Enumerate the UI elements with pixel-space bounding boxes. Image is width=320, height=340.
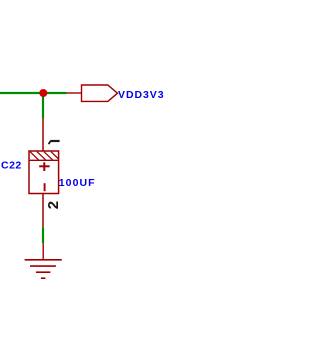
wire bbox=[42, 93, 44, 119]
svg-text:C22: C22 bbox=[1, 160, 22, 172]
ground bbox=[25, 243, 62, 278]
wire bbox=[42, 227, 44, 243]
svg-text:100UF: 100UF bbox=[59, 177, 96, 189]
svg-text:VDD3V3: VDD3V3 bbox=[118, 89, 165, 101]
junction bbox=[39, 89, 47, 97]
power port VDD3V3 bbox=[67, 85, 118, 101]
pin 2 bbox=[43, 194, 62, 228]
capacitor C22 bbox=[29, 151, 59, 194]
pin 1 bbox=[43, 119, 60, 152]
wire bbox=[0, 92, 67, 94]
svg-text:2: 2 bbox=[45, 201, 62, 209]
